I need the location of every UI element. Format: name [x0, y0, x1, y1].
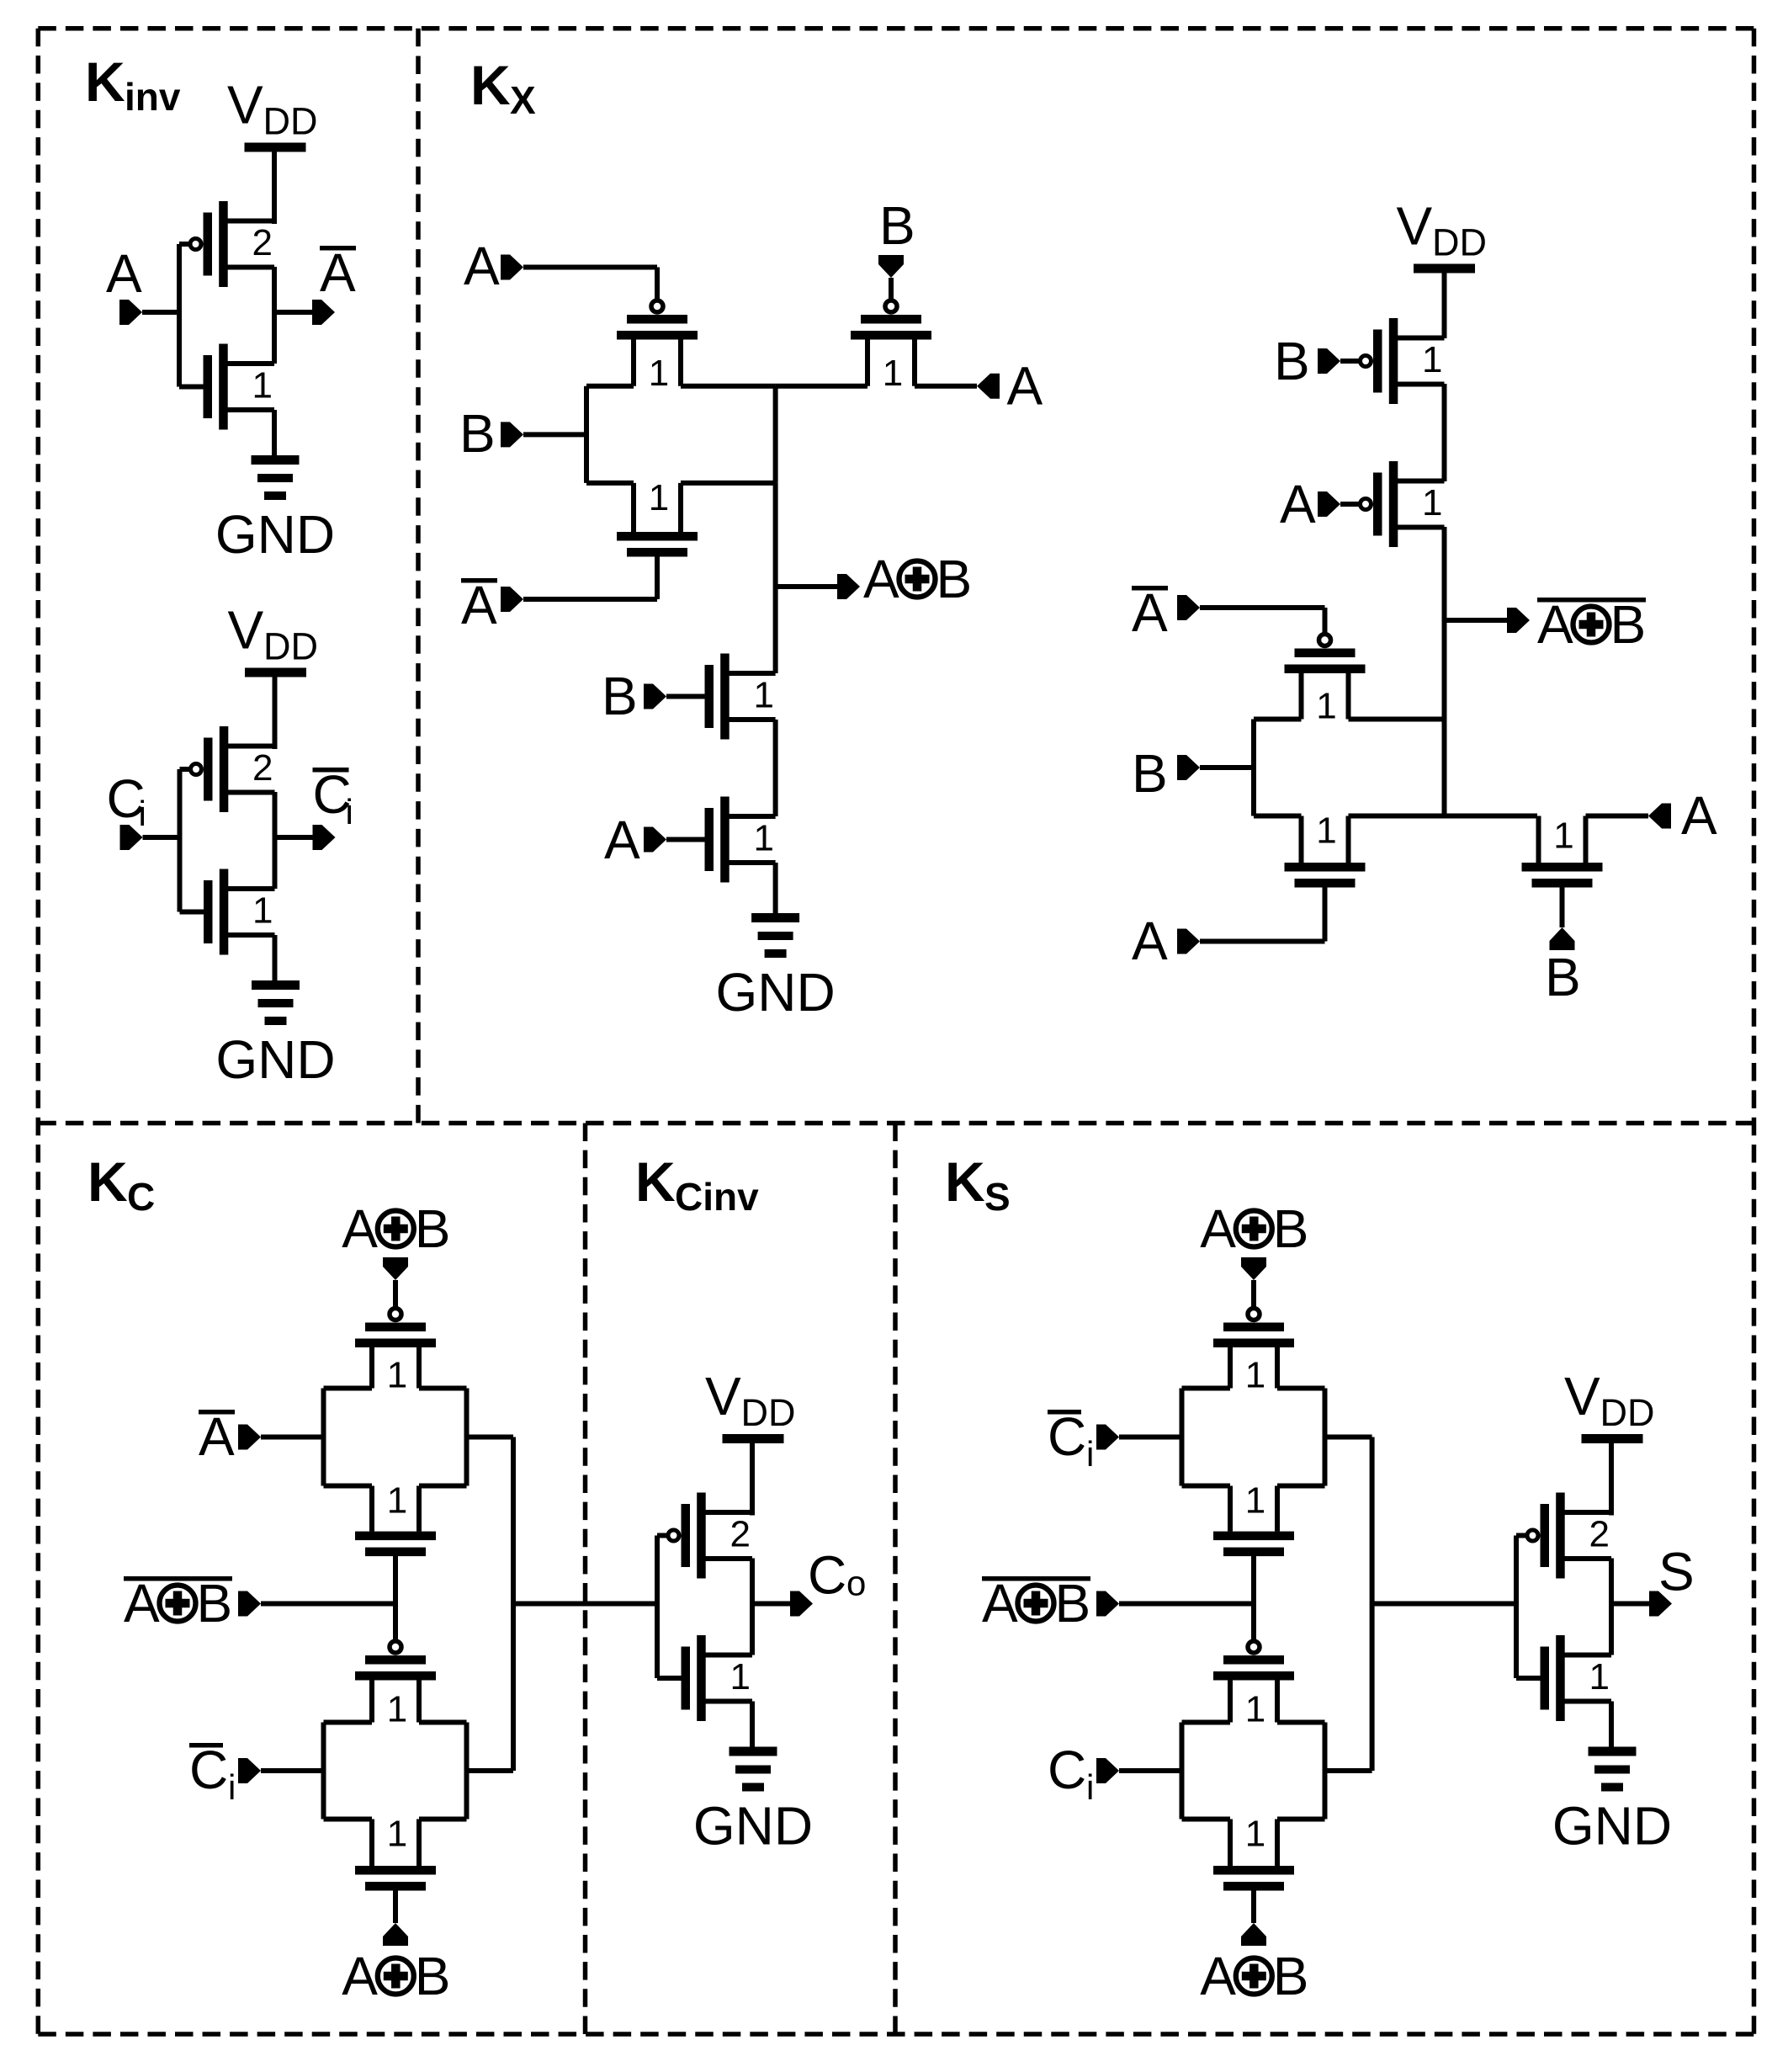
label Abar input (KX right) — [1132, 582, 1168, 643]
wire A xor B to TG1 PMOS gate (KS) — [1251, 1280, 1256, 1307]
dashed outer frame top — [38, 26, 1754, 31]
svg-text:i: i — [228, 1767, 236, 1807]
input port arrow B bottom (KX right) — [1550, 927, 1575, 950]
NMOS transistor (1) of KCinv inverter U3 — [682, 1635, 753, 1721]
svg-text:1: 1 — [649, 353, 669, 394]
label B input PMOS (KX right) — [1274, 331, 1310, 391]
svg-text:B: B — [936, 549, 973, 609]
svg-text:B: B — [879, 195, 915, 256]
wire input to TG1 left rail (KS) — [1119, 1435, 1182, 1440]
wire B to pass PMOS gate (KX) — [889, 278, 894, 300]
PMOS transistor (2) of KCinv inverter U3 — [668, 1493, 752, 1579]
svg-text:GND: GND — [693, 1796, 813, 1857]
transmission-gate TG2 source/drain loop (KS) — [1182, 1723, 1325, 1820]
wire PMOS drain to output node of KCinv inverter U3 — [750, 1559, 755, 1606]
svg-text:1: 1 — [649, 477, 669, 518]
input port arrow A PMOS (KX right) — [1318, 491, 1340, 517]
label A input bottom (KX right) — [1132, 911, 1168, 971]
gate input rail of KCinv inverter U3 — [657, 1536, 682, 1679]
svg-text:1: 1 — [1589, 1656, 1610, 1697]
ground of Kinv inverter U1 (A) — [215, 455, 335, 565]
wire Abar to TG1 NMOS gate (KX) — [523, 597, 657, 602]
VDD of KCinv inverter U3 — [705, 1366, 796, 1443]
ground of Kinv inverter U2 (Ci) — [215, 980, 335, 1090]
NMOS transistor (1) of Kinv inverter U2 (Ci) — [204, 869, 275, 955]
output port arrow A xor B bar (KX right) — [1507, 608, 1530, 633]
label A right (KX right) — [1681, 785, 1717, 846]
dashed outer frame right — [1752, 29, 1757, 2034]
input port arrow A right (KX left) — [977, 374, 1000, 399]
transistor stack PMOS (1) B-gated of KX right — [1361, 318, 1445, 404]
wire VDD to PMOS source of Kinv inverter U1 (A) — [272, 151, 277, 224]
svg-text:1: 1 — [1245, 1480, 1265, 1522]
wire TG1 output to pass PMOS left terminal (KX) — [776, 384, 867, 389]
input port arrow A xor B bottom (KS) — [1241, 1923, 1266, 1946]
wire bus to inverter input (KC) — [513, 1602, 660, 1607]
wire pass PMOS right terminal to A port (KX) — [915, 384, 977, 389]
svg-text:1: 1 — [730, 1656, 751, 1697]
wire input to TG2 left rail (KC) — [261, 1768, 324, 1773]
input port arrow select (KC) — [238, 1591, 261, 1617]
svg-text:B: B — [602, 666, 638, 726]
svg-text:B: B — [415, 1198, 451, 1259]
wire NMOS source to ground of Kinv inverter U2 (Ci) — [273, 935, 278, 980]
svg-text:A: A — [1200, 1198, 1236, 1259]
svg-text:1: 1 — [1316, 810, 1336, 852]
svg-text:B: B — [1273, 1946, 1309, 2006]
input wire of Kinv inverter U2 (Ci) — [143, 835, 183, 840]
svg-text:2: 2 — [730, 1514, 751, 1555]
input port arrow A xor B top (KS) — [1241, 1257, 1266, 1280]
NMOS transistor (1) of KS inverter U4 — [1541, 1635, 1612, 1721]
svg-text:2: 2 — [252, 747, 273, 789]
svg-text:DD: DD — [741, 1391, 796, 1434]
wire TG2 NMOS gate stem (KX right) — [1323, 888, 1328, 942]
wire A xor B to TG1 PMOS gate (KC) — [393, 1280, 398, 1307]
svg-text:A: A — [1537, 594, 1573, 655]
input port arrow A NMOS (KX left) — [644, 827, 666, 853]
svg-text:2: 2 — [1589, 1514, 1610, 1555]
label B bottom (KX right) — [1545, 947, 1581, 1007]
input port arrow A xor B bottom (KC) — [383, 1923, 408, 1946]
input port arrow TG1 (KC) — [238, 1425, 261, 1450]
svg-text:A: A — [1681, 785, 1717, 846]
svg-text:1: 1 — [1553, 816, 1573, 857]
input label C of Kinv inverter U2 (Ci) — [107, 768, 146, 833]
svg-text:DD: DD — [1432, 221, 1487, 264]
wire PMOS drain to output node of KS inverter U4 — [1609, 1559, 1614, 1606]
wire input to TG1 left rail (KC) — [261, 1435, 324, 1440]
wire TG2 NMOS gate stem (KC) — [393, 1891, 398, 1924]
ground of KCinv inverter U3 — [693, 1747, 813, 1857]
wire VDD to PMOS B source (KX right) — [1442, 273, 1447, 338]
transistor TG1 PMOS (1) of KX left — [617, 300, 698, 394]
svg-text:A: A — [1200, 1946, 1236, 2006]
wire input to TG2 left rail (KS) — [1119, 1768, 1182, 1773]
transistor TG1 PMOS (1) of KC — [355, 1309, 436, 1396]
label A input TG1 (KC) — [199, 1406, 235, 1467]
svg-text:A: A — [863, 549, 899, 609]
wire select node to TG2 PMOS bubble (KC) — [393, 1604, 398, 1640]
label A input NMOS (KX left) — [604, 810, 640, 870]
svg-text:A: A — [464, 236, 500, 296]
wire NMOS drain to output node of KCinv inverter U3 — [750, 1602, 755, 1655]
label Ci input TG2 (KS) — [1048, 1740, 1094, 1807]
wire PMOS drain to output node of Kinv inverter U1 (A) — [272, 267, 277, 314]
label B input (KX left) — [459, 403, 496, 464]
label A xor B top input (KS) — [1200, 1198, 1308, 1259]
svg-text:1: 1 — [1316, 686, 1336, 727]
svg-text:1: 1 — [1422, 482, 1442, 523]
wire NMOS drain to output node of Kinv inverter U2 (Ci) — [273, 836, 278, 889]
svg-text:2: 2 — [252, 222, 273, 263]
output label C of Kinv inverter U2 (Ci) — [313, 764, 353, 831]
wire B to PMOS gate bubble (KX right) — [1340, 359, 1360, 364]
svg-text:1: 1 — [1245, 1355, 1265, 1396]
label Ci input TG1 (KS) — [1048, 1406, 1094, 1474]
transmission-gate TG2 source/drain loop (KC) — [324, 1723, 467, 1820]
svg-text:A: A — [106, 243, 142, 304]
svg-text:1: 1 — [883, 353, 903, 394]
svg-text:1: 1 — [754, 675, 774, 716]
svg-text:K: K — [945, 1150, 985, 1213]
wire bus PMOS stack down to TG (KX right) — [1442, 527, 1447, 720]
VDD of Kinv inverter U1 (A) — [227, 75, 318, 152]
wire VDD to PMOS source of KS inverter U4 — [1609, 1443, 1614, 1516]
PMOS transistor (2) of Kinv inverter U1 (A) — [190, 201, 274, 287]
label A input (KX left) — [464, 236, 500, 296]
input port arrow Abar (KX left) — [501, 587, 523, 612]
svg-text:B: B — [1274, 331, 1310, 391]
svg-text:inv: inv — [125, 75, 181, 119]
svg-text:V: V — [228, 600, 264, 661]
wire NMOS source to ground of Kinv inverter U1 (A) — [272, 410, 277, 455]
input port arrow B (KX right) — [1177, 755, 1200, 780]
transistor TG1 NMOS (1) of KC — [355, 1480, 436, 1557]
svg-text:B: B — [1545, 947, 1581, 1007]
svg-text:V: V — [1564, 1366, 1600, 1426]
svg-text:C: C — [189, 1740, 228, 1800]
input port arrow A (KX left) — [501, 255, 523, 280]
input port arrow B top (KX left) — [878, 255, 904, 278]
svg-text:C: C — [1048, 1740, 1086, 1800]
transistor TG1 NMOS (1) of KS — [1213, 1480, 1294, 1557]
transistor TG2 NMOS (1) of KC — [355, 1814, 436, 1891]
transistor stack NMOS (1) A-gated of KX left — [705, 797, 776, 883]
dashed divider KCinv/KS — [893, 1124, 898, 2035]
transistor pass PMOS (1) B-gated of KX left — [851, 300, 931, 394]
gate input rail of Kinv inverter U2 (Ci) — [180, 769, 204, 912]
label B input NMOS (KX left) — [602, 666, 638, 726]
label B input top (KX left) — [879, 195, 915, 256]
wire B to TG1 left rail (KX) — [523, 432, 586, 437]
svg-text:A: A — [342, 1198, 378, 1259]
wire TG1 NMOS gate stem to select node (KC) — [393, 1556, 398, 1647]
wire stack NMOS source to ground (KX left) — [773, 863, 778, 913]
svg-text:B: B — [1132, 743, 1168, 804]
wire select node to TG2 PMOS bubble (KS) — [1251, 1604, 1256, 1640]
ground of KS inverter U4 — [1552, 1747, 1672, 1857]
wire A to TG2 NMOS gate (KX right) — [1200, 939, 1325, 944]
svg-text:B: B — [1055, 1573, 1091, 1634]
transmission-gate TG1 source/drain loop (KX left) — [586, 386, 776, 483]
wire TG1 output to bus (KC) — [467, 1435, 514, 1440]
svg-text:i: i — [1086, 1767, 1094, 1807]
output label C of KCinv inverter U3 — [808, 1545, 866, 1606]
svg-text:1: 1 — [1422, 339, 1442, 380]
wire TG2 output to bus (KS) — [1325, 1768, 1372, 1773]
output port arrow A xor B (KX left) — [837, 574, 860, 599]
svg-text:i: i — [346, 792, 353, 831]
wire Abar to TG2 PMOS gate (KX right) — [1200, 608, 1325, 633]
input port arrow TG2 (KC) — [238, 1758, 261, 1783]
transmission-gate TG1 source/drain loop (KS) — [1182, 1389, 1325, 1486]
panel title K_C — [88, 1150, 155, 1219]
label A right (KX left) — [1007, 356, 1043, 417]
svg-text:C: C — [1048, 1406, 1086, 1467]
svg-text:X: X — [510, 78, 536, 122]
wire NMOS drain to output node of Kinv inverter U1 (A) — [272, 311, 277, 364]
label A xor B bar output (KX right) — [1537, 594, 1646, 655]
svg-text:i: i — [1086, 1434, 1094, 1474]
output port arrow of KCinv inverter U3 — [790, 1591, 813, 1617]
svg-text:A: A — [1280, 474, 1316, 534]
wire pass NMOS gate stem (KX right) — [1560, 888, 1565, 928]
label A xor B bottom input (KS) — [1200, 1946, 1308, 2006]
svg-text:DD: DD — [263, 625, 318, 668]
wire B to stack NMOS gate (KX) — [666, 694, 705, 699]
label A xor B bar select input (KC) — [124, 1573, 232, 1634]
transistor TG1 NMOS (1) of KX left — [617, 477, 698, 557]
wire NMOS drain to output node of KS inverter U4 — [1609, 1602, 1614, 1655]
input port arrow B (KX left) — [501, 422, 523, 447]
svg-text:S: S — [984, 1175, 1011, 1219]
svg-text:A: A — [342, 1946, 378, 2006]
svg-text:B: B — [459, 403, 496, 464]
svg-text:1: 1 — [387, 1480, 407, 1522]
wire between stack NMOS transistors (KX left) — [773, 720, 778, 816]
wire A to TG1 PMOS gate (KX) — [523, 268, 657, 300]
input wire of Kinv inverter U1 (A) — [142, 310, 182, 315]
svg-text:DD: DD — [263, 100, 318, 143]
dashed outer frame left — [36, 29, 41, 2034]
input port arrow A bottom (KX right) — [1177, 929, 1200, 954]
wire B to TG2 left rail (KX right) — [1200, 765, 1254, 770]
wire PMOS drain to output node of Kinv inverter U2 (Ci) — [273, 792, 278, 839]
wire output bus (KC) — [511, 1437, 516, 1772]
transmission-gate TG1 source/drain loop (KC) — [324, 1389, 467, 1486]
PMOS transistor (2) of KS inverter U4 — [1527, 1493, 1611, 1579]
wire TG1 NMOS gate stem to select node (KS) — [1251, 1556, 1256, 1647]
input port arrow of Kinv inverter U2 (Ci) — [120, 825, 143, 850]
output wire of KCinv inverter U3 — [752, 1602, 790, 1607]
input port arrow TG1 (KS) — [1096, 1425, 1119, 1450]
wire NMOS source to ground of KS inverter U4 — [1609, 1702, 1614, 1747]
wire TG1 NMOS gate stem (KX) — [655, 557, 660, 600]
wire TG2 NMOS gate stem (KS) — [1251, 1891, 1256, 1924]
svg-text:K: K — [635, 1150, 676, 1213]
svg-text:o: o — [846, 1564, 866, 1603]
output wire of KS inverter U4 — [1611, 1602, 1649, 1607]
svg-text:GND: GND — [215, 504, 335, 565]
VDD supply of KX right — [1397, 196, 1488, 274]
transmission-gate TG2 source/drain loop (KX right) — [1254, 720, 1445, 816]
wire select input to TG gates (KS) — [1119, 1602, 1254, 1607]
wire bus to inverter input (KS) — [1372, 1602, 1519, 1607]
input port arrow B NMOS (KX left) — [644, 684, 666, 709]
svg-text:1: 1 — [252, 890, 273, 932]
svg-text:A: A — [1132, 911, 1168, 971]
panel title K_inv — [85, 50, 181, 119]
PMOS transistor (2) of Kinv inverter U2 (Ci) — [191, 726, 275, 812]
svg-text:DD: DD — [1600, 1391, 1655, 1434]
ground of KX left — [715, 913, 835, 1023]
svg-text:K: K — [88, 1150, 128, 1213]
input port arrow Abar (KX right) — [1177, 595, 1200, 620]
svg-text:K: K — [85, 50, 125, 113]
input port arrow TG2 (KS) — [1096, 1758, 1119, 1783]
svg-text:A: A — [982, 1573, 1018, 1634]
transistor pass NMOS (1) B-gated of KX right — [1522, 816, 1603, 888]
svg-text:GND: GND — [1552, 1796, 1672, 1857]
wire between stack PMOS transistors (KX right) — [1442, 384, 1447, 481]
svg-text:A: A — [199, 1406, 235, 1467]
svg-text:Cinv: Cinv — [675, 1175, 759, 1219]
label A xor B bar select input (KS) — [982, 1573, 1090, 1634]
dashed divider Kinv/KX — [416, 29, 421, 1124]
label Ci input TG2 (KC) — [189, 1740, 236, 1807]
label A xor B bottom input (KC) — [342, 1946, 450, 2006]
svg-text:1: 1 — [387, 1355, 407, 1396]
panel title K_S — [945, 1150, 1011, 1219]
VDD of Kinv inverter U2 (Ci) — [228, 600, 319, 677]
label A xor B output (KX left) — [863, 549, 972, 609]
svg-text:B: B — [415, 1946, 451, 2006]
svg-text:i: i — [139, 794, 146, 833]
wire output A xor B (KX left) — [776, 584, 837, 589]
svg-text:C: C — [808, 1545, 846, 1606]
output label S of KS inverter U4 — [1658, 1542, 1695, 1602]
wire VDD to PMOS source of KCinv inverter U3 — [750, 1443, 755, 1516]
dashed divider KC/KCinv — [583, 1124, 588, 2035]
svg-text:A: A — [320, 242, 356, 303]
wire output A xor B bar (KX right) — [1445, 618, 1508, 623]
svg-text:S: S — [1658, 1542, 1695, 1602]
svg-text:GND: GND — [215, 1029, 335, 1090]
svg-text:B: B — [1610, 594, 1647, 655]
input port arrow A xor B top (KC) — [383, 1257, 408, 1280]
output port arrow of Kinv inverter U1 (A) — [312, 300, 335, 325]
wire NMOS source to ground of KCinv inverter U3 — [750, 1702, 755, 1747]
wire A to stack NMOS gate (KX) — [666, 837, 705, 842]
output label A of Kinv inverter U1 (A) — [320, 242, 356, 303]
gate input rail of KS inverter U4 — [1516, 1536, 1541, 1679]
svg-text:V: V — [1397, 196, 1433, 257]
svg-text:B: B — [197, 1573, 233, 1634]
svg-text:K: K — [470, 54, 511, 116]
input port arrow of Kinv inverter U1 (A) — [119, 300, 142, 325]
wire TG2 output to bus (KC) — [467, 1768, 514, 1773]
svg-text:1: 1 — [1245, 1689, 1265, 1730]
svg-text:V: V — [705, 1366, 741, 1426]
transistor stack PMOS (1) A-gated of KX right — [1361, 461, 1445, 547]
label A xor B top input (KC) — [342, 1198, 450, 1259]
label Abar input (KX left) — [461, 575, 497, 635]
output port arrow of KS inverter U4 — [1649, 1591, 1672, 1617]
panel title K_X — [470, 54, 536, 122]
wire select input to TG gates (KC) — [261, 1602, 395, 1607]
transistor TG1 PMOS (1) of KS — [1213, 1309, 1294, 1396]
svg-text:V: V — [227, 75, 263, 135]
wire A to PMOS gate bubble (KX right) — [1340, 502, 1360, 507]
svg-text:GND: GND — [715, 962, 835, 1023]
dashed outer frame bottom — [38, 2032, 1754, 2037]
label B input (KX right) — [1132, 743, 1168, 804]
output wire of Kinv inverter U2 (Ci) — [275, 835, 313, 840]
svg-text:B: B — [1273, 1198, 1309, 1259]
transistor TG2 PMOS (1) of KX right — [1285, 635, 1366, 727]
panel title K_Cinv — [635, 1150, 759, 1219]
svg-text:1: 1 — [1245, 1814, 1265, 1855]
output port arrow of Kinv inverter U2 (Ci) — [313, 825, 336, 850]
wire pass NMOS right terminal to A port (KX right) — [1586, 814, 1649, 819]
gate input rail of Kinv inverter U1 (A) — [179, 244, 204, 387]
wire bus TG output down to NMOS stack (KX left) — [773, 483, 778, 673]
input label A of Kinv inverter U1 (A) — [106, 243, 142, 304]
output wire of Kinv inverter U1 (A) — [274, 310, 312, 315]
input port arrow B PMOS (KX right) — [1318, 348, 1340, 374]
transistor stack NMOS (1) B-gated of KX left — [705, 654, 776, 740]
VDD of KS inverter U4 — [1564, 1366, 1655, 1443]
transistor TG2 PMOS (1) of KC — [355, 1641, 436, 1730]
svg-text:C: C — [127, 1175, 155, 1219]
wire output bus (KS) — [1370, 1437, 1375, 1772]
svg-text:A: A — [1132, 582, 1168, 643]
dashed divider top/bottom rows — [38, 1121, 1754, 1126]
wire TG1 output to bus (KS) — [1325, 1435, 1372, 1440]
wire VDD to PMOS source of Kinv inverter U2 (Ci) — [273, 677, 278, 749]
transistor TG2 NMOS (1) of KX right — [1285, 810, 1366, 888]
input port arrow select (KS) — [1096, 1591, 1119, 1617]
svg-text:A: A — [461, 575, 497, 635]
svg-text:1: 1 — [754, 818, 774, 859]
label A input PMOS (KX right) — [1280, 474, 1316, 534]
svg-text:A: A — [124, 1573, 160, 1634]
transistor TG2 NMOS (1) of KS — [1213, 1814, 1294, 1891]
svg-text:A: A — [604, 810, 640, 870]
svg-text:1: 1 — [387, 1689, 407, 1730]
svg-text:A: A — [1007, 356, 1043, 417]
transistor TG2 PMOS (1) of KS — [1213, 1641, 1294, 1730]
input port arrow A right (KX right) — [1648, 804, 1671, 829]
NMOS transistor (1) of Kinv inverter U1 (A) — [204, 344, 275, 430]
svg-text:1: 1 — [252, 365, 273, 406]
svg-text:1: 1 — [387, 1814, 407, 1855]
wire TG2 bottom rail to pass NMOS (KX right) — [1445, 814, 1538, 819]
